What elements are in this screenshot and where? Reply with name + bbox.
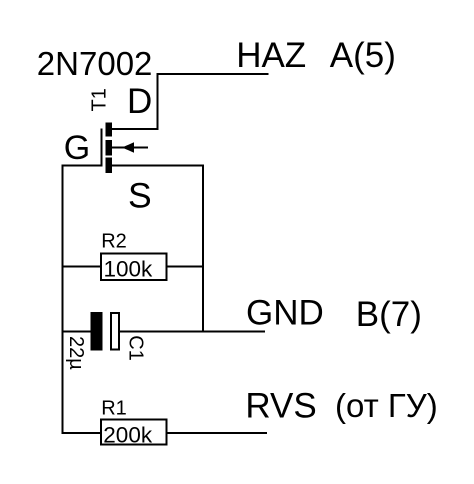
svg-text:R1: R1 — [101, 398, 127, 420]
svg-text:C1: C1 — [124, 335, 146, 361]
svg-text:B(7): B(7) — [356, 295, 422, 334]
svg-text:D: D — [127, 82, 152, 121]
svg-text:A(5): A(5) — [330, 36, 396, 75]
svg-text:GND: GND — [246, 294, 324, 333]
svg-text:HAZ: HAZ — [236, 36, 306, 75]
svg-text:200k: 200k — [103, 422, 153, 447]
svg-text:R2: R2 — [101, 231, 127, 253]
svg-text:RVS: RVS — [245, 387, 316, 426]
svg-text:T1: T1 — [89, 88, 111, 111]
svg-text:(от ГУ): (от ГУ) — [335, 387, 438, 424]
svg-text:2N7002: 2N7002 — [37, 45, 153, 82]
svg-text:G: G — [64, 129, 90, 167]
svg-text:S: S — [128, 176, 152, 216]
svg-text:100k: 100k — [104, 256, 154, 281]
svg-text:22µ: 22µ — [65, 336, 87, 370]
